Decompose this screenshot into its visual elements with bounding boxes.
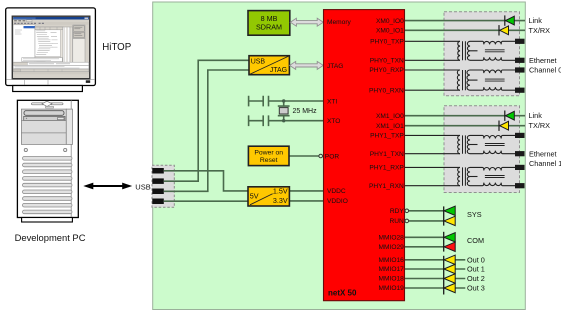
svg-text:POR: POR: [325, 153, 340, 160]
svg-text:XM1_IO1: XM1_IO1: [376, 123, 404, 130]
svg-text:Channel 0: Channel 0: [529, 66, 561, 75]
svg-text:Link: Link: [529, 16, 543, 25]
svg-text:XTO: XTO: [327, 118, 340, 125]
svg-text:COM: COM: [467, 236, 484, 245]
svg-text:PHY0_TXP: PHY0_TXP: [370, 39, 404, 46]
svg-text:MMIO16: MMIO16: [379, 257, 405, 264]
svg-text:XM0_IO0: XM0_IO0: [376, 18, 404, 25]
svg-text:TX/RX: TX/RX: [529, 121, 551, 130]
svg-text:3.3V: 3.3V: [273, 196, 288, 205]
svg-text:PHY1_TXP: PHY1_TXP: [370, 133, 404, 140]
svg-text:Channel 1: Channel 1: [529, 159, 561, 168]
svg-text:JTAG: JTAG: [270, 67, 287, 74]
svg-text:Ethernet: Ethernet: [529, 149, 557, 158]
svg-text:TX/RX: TX/RX: [529, 26, 551, 35]
svg-text:SDRAM: SDRAM: [256, 23, 282, 32]
svg-text:PHY1_RXN: PHY1_RXN: [369, 183, 404, 190]
svg-text:MMIO29: MMIO29: [379, 244, 405, 251]
svg-text:PHY1_TXN: PHY1_TXN: [370, 151, 404, 158]
svg-text:SYS: SYS: [467, 210, 482, 219]
svg-text:Reset: Reset: [260, 157, 278, 164]
svg-text:Out 3: Out 3: [467, 284, 485, 293]
svg-text:Out 1: Out 1: [467, 265, 485, 274]
svg-text:VDDIO: VDDIO: [327, 198, 348, 205]
svg-text:PHY0_RXP: PHY0_RXP: [369, 67, 404, 74]
svg-text:XM0_IO1: XM0_IO1: [376, 28, 404, 35]
svg-text:PHY0_RXN: PHY0_RXN: [369, 87, 404, 94]
svg-text:Ethernet: Ethernet: [529, 56, 557, 65]
svg-text:RDY: RDY: [390, 208, 405, 215]
svg-text:HiTOP: HiTOP: [102, 42, 131, 53]
svg-text:25 MHz: 25 MHz: [293, 108, 318, 115]
svg-text:Out 0: Out 0: [467, 255, 485, 264]
svg-text:5V: 5V: [250, 192, 259, 201]
svg-text:VDDC: VDDC: [327, 188, 346, 195]
svg-text:USB: USB: [135, 182, 150, 191]
svg-text:1.5V: 1.5V: [273, 186, 288, 195]
svg-text:Memory: Memory: [327, 19, 352, 26]
svg-text:MMIO28: MMIO28: [379, 235, 405, 242]
svg-text:Link: Link: [529, 111, 543, 120]
svg-text:PHY0_TXN: PHY0_TXN: [370, 58, 404, 65]
svg-text:Development PC: Development PC: [15, 232, 86, 243]
svg-text:USB: USB: [251, 59, 266, 66]
svg-text:RUN: RUN: [390, 218, 405, 225]
svg-text:JTAG: JTAG: [327, 63, 343, 70]
svg-text:netX 50: netX 50: [328, 288, 357, 297]
svg-text:MMIO17: MMIO17: [379, 266, 405, 273]
svg-text:XM1_IO0: XM1_IO0: [376, 113, 404, 120]
svg-text:Out 2: Out 2: [467, 274, 485, 283]
svg-text:MMIO18: MMIO18: [379, 276, 405, 283]
svg-text:Power on: Power on: [254, 150, 283, 157]
svg-text:PHY1_RXP: PHY1_RXP: [369, 165, 404, 172]
svg-text:MMIO19: MMIO19: [379, 285, 405, 292]
svg-text:XTI: XTI: [327, 98, 337, 105]
